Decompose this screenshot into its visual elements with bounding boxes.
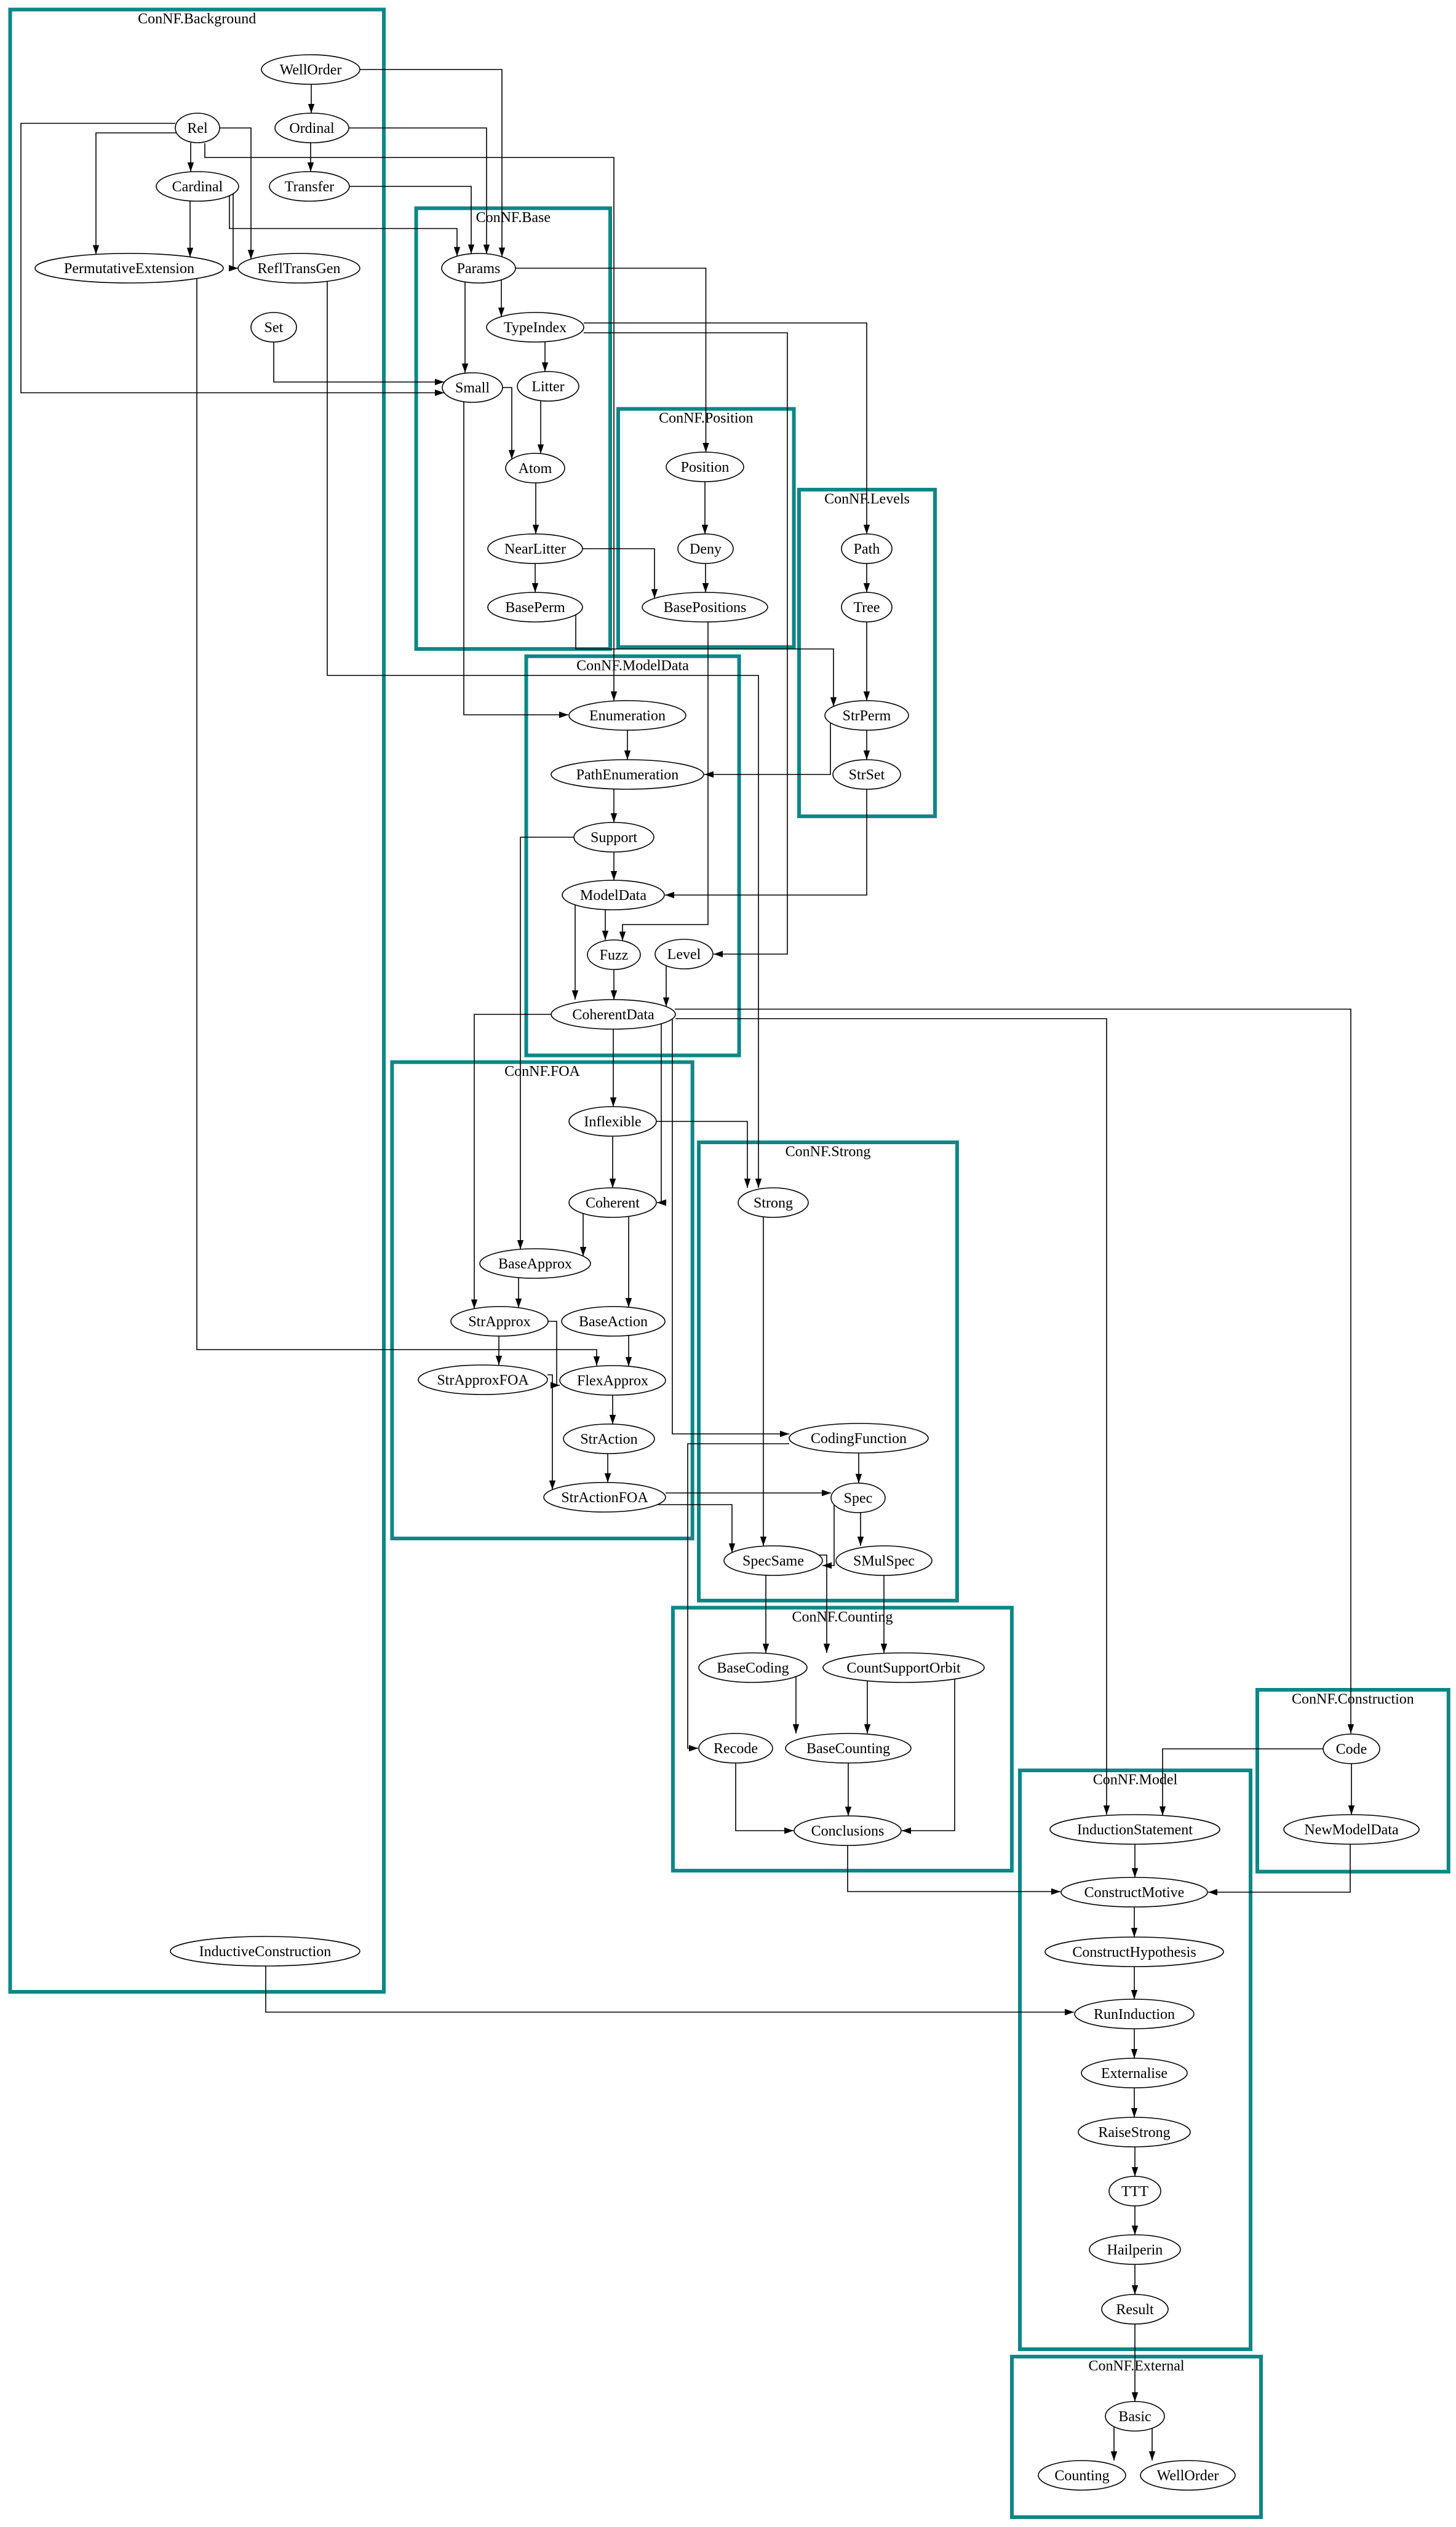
svg-text:Level: Level [667, 947, 701, 963]
svg-text:Spec: Spec [844, 1490, 873, 1506]
svg-text:TTT: TTT [1121, 2184, 1148, 2200]
edge StrApproxFOA->StrActionFOA [547, 1375, 552, 1490]
svg-text:WellOrder: WellOrder [1157, 2468, 1219, 2484]
edge Level->CoherentData [666, 966, 667, 1007]
svg-text:ReflTransGen: ReflTransGen [257, 261, 340, 277]
node Deny [678, 534, 733, 563]
svg-text:CoherentData: CoherentData [572, 1007, 654, 1023]
svg-text:Transfer: Transfer [285, 179, 334, 195]
svg-text:WellOrder: WellOrder [280, 62, 342, 78]
edge Basic->Counting [1113, 2427, 1115, 2461]
edge Hailperin->Result [1134, 2264, 1136, 2294]
cluster ConNF.External [1012, 2357, 1261, 2517]
svg-text:Basic: Basic [1118, 2409, 1151, 2425]
edge Code->InductionStatement [1163, 1749, 1323, 1815]
edge BaseAction->FlexApprox [628, 1335, 629, 1366]
edge CoherentData->Code [675, 1009, 1351, 1734]
svg-text:FlexApprox: FlexApprox [577, 1373, 648, 1389]
node InductionStatement [1050, 1815, 1220, 1844]
node StrActionFOA [544, 1482, 666, 1512]
edge Support->ModelData [613, 852, 615, 880]
edge Params->Position [515, 268, 706, 452]
svg-text:StrPerm: StrPerm [843, 708, 891, 724]
svg-text:BasePositions: BasePositions [664, 600, 747, 616]
edge Conclusions->ConstructMotive [848, 1845, 1060, 1892]
svg-text:PermutativeExtension: PermutativeExtension [64, 261, 194, 277]
node BasePerm [488, 592, 583, 622]
svg-text:ConNF.Model: ConNF.Model [1093, 1772, 1178, 1788]
edge Strong->SpecSame [763, 1217, 764, 1546]
node Enumeration [569, 701, 686, 730]
cluster ConNF.Strong [699, 1142, 957, 1601]
svg-text:Result: Result [1116, 2302, 1154, 2318]
svg-text:Rel: Rel [187, 121, 208, 137]
edge Small->Atom [503, 388, 512, 459]
node TypeIndex [487, 312, 584, 342]
edge ModelData->CoherentData [575, 905, 576, 1000]
edge TypeIndex->Litter [544, 342, 546, 372]
cluster ConNF.Model [1020, 1770, 1251, 2349]
svg-text:Tree: Tree [853, 600, 880, 616]
svg-text:StrSet: StrSet [849, 767, 885, 783]
edge Inflexible->Strong [656, 1121, 747, 1188]
cluster ConNF.Background [10, 10, 384, 1992]
svg-text:ConNF.FOA: ConNF.FOA [504, 1064, 580, 1080]
edge InductionStatement->ConstructMotive [1134, 1844, 1136, 1877]
svg-text:ConstructMotive: ConstructMotive [1084, 1885, 1185, 1901]
node Spec [831, 1483, 885, 1513]
node BasePositions [642, 592, 768, 622]
edge StrActionFOA->Spec [666, 1492, 831, 1494]
svg-text:Conclusions: Conclusions [811, 1823, 885, 1839]
edge Fuzz->CoherentData [613, 969, 615, 1000]
edge Cardinal->ReflTransGen [233, 194, 238, 268]
node Externalise [1081, 2058, 1187, 2088]
node BaseCounting [786, 1733, 911, 1763]
edge CoherentData->CodingFunction [672, 1019, 789, 1435]
edge Params->TypeIndex [501, 280, 502, 317]
svg-text:Path: Path [854, 541, 880, 557]
edge FlexApprox->StrAction [612, 1395, 613, 1424]
svg-text:RunInduction: RunInduction [1094, 2007, 1175, 2023]
node Transfer [269, 172, 349, 201]
svg-text:BaseCoding: BaseCoding [717, 1660, 789, 1676]
edge Atom->NearLitter [535, 483, 536, 534]
svg-text:ConNF.ModelData: ConNF.ModelData [576, 658, 689, 674]
edge StrSet->ModelData [665, 789, 867, 895]
svg-text:Enumeration: Enumeration [589, 708, 666, 724]
node StrAction [563, 1424, 654, 1454]
edge TTT->Hailperin [1134, 2206, 1136, 2235]
svg-text:NewModelData: NewModelData [1304, 1822, 1399, 1838]
svg-text:Hailperin: Hailperin [1107, 2242, 1163, 2258]
node WellOrder [261, 55, 360, 84]
node SMulSpec [836, 1546, 932, 1575]
svg-text:Atom: Atom [519, 461, 552, 477]
node Ordinal [275, 113, 349, 143]
edge TypeIndex->Path [584, 323, 867, 534]
edge PermutativeExtension->FlexApprox [197, 279, 597, 1366]
node BaseAction [562, 1307, 665, 1336]
edge NewModelData->ConstructMotive [1208, 1844, 1350, 1892]
edge Coherent->BaseAction [628, 1216, 629, 1307]
edge Rel->Enumeration [205, 143, 614, 701]
node PermutativeExtension [35, 253, 223, 283]
edge TypeIndex->Level [584, 333, 787, 954]
edge NearLitter->BasePerm [535, 563, 536, 592]
edge Tree->StrPerm [866, 622, 867, 701]
node CountSupportOrbit [823, 1653, 984, 1682]
edge StrPerm->PathEnumeration [704, 723, 830, 774]
svg-text:SMulSpec: SMulSpec [853, 1553, 915, 1569]
svg-text:CodingFunction: CodingFunction [811, 1431, 907, 1447]
edge BaseCoding->BaseCounting [795, 1677, 797, 1734]
cluster ConNF.Position [618, 409, 794, 647]
edge Rel->Cardinal [190, 143, 191, 172]
svg-text:ConNF.Strong: ConNF.Strong [786, 1144, 871, 1160]
edge Transfer->Params [349, 186, 471, 254]
edge SMulSpec->CountSupportOrbit [883, 1575, 885, 1653]
edge Recode->Conclusions [736, 1763, 794, 1831]
svg-text:Inflexible: Inflexible [584, 1114, 641, 1130]
node Set [251, 312, 296, 342]
node Params [442, 253, 515, 283]
node FlexApprox [560, 1366, 666, 1395]
svg-text:ConNF.Base: ConNF.Base [476, 210, 551, 226]
node StrApproxFOA [418, 1365, 547, 1395]
svg-text:InductionStatement: InductionStatement [1077, 1822, 1193, 1838]
svg-text:ConstructHypothesis: ConstructHypothesis [1072, 1944, 1196, 1960]
edge Spec->SMulSpec [860, 1513, 861, 1546]
node Position [666, 452, 744, 482]
node NearLitter [488, 534, 583, 563]
node RunInduction [1075, 1999, 1194, 2029]
svg-text:StrApprox: StrApprox [468, 1314, 530, 1330]
edge Spec->SpecSame [822, 1505, 834, 1566]
svg-text:Position: Position [681, 460, 730, 476]
node Recode [699, 1733, 773, 1763]
svg-text:ModelData: ModelData [580, 888, 646, 904]
edge CoherentData->StrApprox [474, 1014, 551, 1309]
node Atom [506, 453, 565, 483]
edge Cardinal->Params [229, 196, 457, 256]
svg-text:CountSupportOrbit: CountSupportOrbit [846, 1660, 961, 1676]
edge WellOrder->Params [360, 70, 502, 257]
svg-text:StrAction: StrAction [580, 1431, 637, 1447]
node ReflTransGen [238, 253, 360, 283]
edge NearLitter->BasePositions [583, 549, 654, 599]
svg-text:BaseCounting: BaseCounting [806, 1741, 890, 1757]
edge Set->Small [274, 342, 444, 382]
edge CoherentData->InductionStatement [675, 1019, 1107, 1815]
node CodingFunction [789, 1423, 928, 1453]
node Fuzz [587, 940, 640, 969]
edge Litter->Atom [540, 400, 541, 453]
svg-text:ConNF.External: ConNF.External [1088, 2358, 1184, 2374]
edge Code->NewModelData [1351, 1764, 1352, 1815]
svg-text:RaiseStrong: RaiseStrong [1098, 2125, 1170, 2141]
edge StrActionFOA->SpecSame [658, 1505, 732, 1553]
node Inflexible [569, 1107, 656, 1136]
cluster ConNF.Counting [673, 1608, 1012, 1871]
svg-text:ConNF.Construction: ConNF.Construction [1292, 1692, 1414, 1708]
edge Ordinal->Transfer [310, 143, 311, 172]
svg-text:Params: Params [457, 261, 501, 277]
node Counting [1038, 2461, 1126, 2490]
node TTT [1109, 2176, 1161, 2206]
edge RunInduction->Externalise [1134, 2029, 1135, 2058]
edge CoherentData->Coherent [657, 1024, 661, 1203]
edge CoherentData->Inflexible [613, 1029, 614, 1107]
node InductiveConstruction [170, 1936, 360, 1966]
edge StrPerm->StrSet [866, 730, 867, 760]
svg-text:Fuzz: Fuzz [600, 947, 629, 963]
edge StrAction->StrActionFOA [607, 1454, 608, 1482]
svg-text:Recode: Recode [714, 1741, 758, 1757]
node Hailperin [1089, 2235, 1180, 2264]
edge BasePerm->StrPerm [576, 615, 833, 706]
node Level [655, 939, 713, 969]
svg-text:NearLitter: NearLitter [504, 541, 566, 557]
node ConstructHypothesis [1045, 1937, 1223, 1967]
svg-text:Ordinal: Ordinal [289, 121, 335, 137]
node Strong [738, 1188, 808, 1217]
node StrApprox [451, 1307, 548, 1336]
svg-text:Cardinal: Cardinal [172, 179, 223, 195]
edge Path->Tree [866, 563, 867, 592]
edge Coherent->BaseApprox [583, 1214, 584, 1256]
node Rel [175, 113, 220, 143]
node CoherentData [551, 1000, 675, 1029]
node BaseApprox [480, 1249, 591, 1278]
node BaseCoding [699, 1653, 807, 1682]
svg-text:StrActionFOA: StrActionFOA [561, 1490, 648, 1506]
edge BasePositions->Fuzz [623, 622, 708, 941]
node Support [574, 822, 654, 852]
edge Rel->Small [21, 124, 444, 393]
cluster ConNF.Construction [1257, 1690, 1449, 1872]
node Coherent [569, 1188, 656, 1217]
edge Cardinal->PermutativeExtension [189, 201, 191, 257]
svg-text:SpecSame: SpecSame [742, 1553, 804, 1569]
node Basic [1105, 2402, 1164, 2431]
edge BaseCounting->Conclusions [848, 1763, 849, 1816]
node RaiseStrong [1078, 2117, 1190, 2147]
node Cardinal [156, 172, 239, 201]
node NewModelData [1284, 1815, 1419, 1844]
svg-text:Small: Small [455, 380, 490, 396]
svg-text:PathEnumeration: PathEnumeration [576, 767, 679, 783]
svg-text:BasePerm: BasePerm [505, 600, 565, 616]
edge Params->Small [464, 282, 466, 373]
edge RaiseStrong->TTT [1134, 2147, 1136, 2176]
edge ConstructMotive->ConstructHypothesis [1134, 1907, 1135, 1937]
cluster ConNF.FOA [392, 1062, 692, 1538]
svg-text:ConNF.Background: ConNF.Background [138, 11, 256, 27]
cluster ConNF.Levels [799, 490, 935, 816]
edge CodingFunction->Spec [858, 1453, 859, 1483]
svg-text:Deny: Deny [690, 541, 722, 557]
node ConstructMotive [1061, 1877, 1207, 1907]
edge Basic->WellOrder2 [1152, 2429, 1153, 2461]
edge InductiveConstruction->RunInduction [266, 1966, 1074, 2012]
edge BaseApprox->StrApprox [518, 1278, 519, 1308]
node Result [1102, 2294, 1168, 2324]
edge SpecSame->BaseCoding [765, 1575, 766, 1653]
edge CountSupportOrbit->Conclusions [902, 1679, 955, 1831]
svg-text:BaseAction: BaseAction [579, 1314, 648, 1330]
edge Externalise->RaiseStrong [1134, 2088, 1135, 2117]
svg-text:Externalise: Externalise [1101, 2066, 1168, 2082]
node Code [1323, 1734, 1380, 1764]
edge SpecSame->CountSupportOrbit [817, 1555, 827, 1653]
node Conclusions [794, 1816, 901, 1845]
svg-text:Support: Support [591, 830, 637, 846]
svg-text:InductiveConstruction: InductiveConstruction [199, 1944, 332, 1960]
node PathEnumeration [551, 760, 704, 789]
edge Enumeration->PathEnumeration [627, 730, 628, 760]
edge Inflexible->Coherent [612, 1136, 613, 1188]
node WellOrder [1140, 2461, 1235, 2490]
edge Rel->ReflTransGen [220, 128, 251, 259]
edge Deny->BasePositions [705, 563, 706, 592]
node StrPerm [825, 701, 909, 730]
svg-text:Counting: Counting [1054, 2468, 1109, 2484]
node Litter [517, 372, 579, 401]
node ModelData [562, 880, 664, 910]
edge ConstructHypothesis->RunInduction [1134, 1967, 1135, 1999]
edge Ordinal->Params [349, 128, 487, 254]
cluster ConNF.ModelData [527, 656, 739, 1056]
svg-text:Strong: Strong [754, 1195, 793, 1211]
node Path [841, 534, 892, 563]
svg-text:StrApproxFOA: StrApproxFOA [437, 1372, 529, 1388]
node Tree [841, 592, 892, 622]
svg-text:TypeIndex: TypeIndex [504, 320, 567, 336]
svg-text:Set: Set [265, 320, 284, 336]
edge Rel->PermutativeExtension [96, 133, 177, 255]
edge Result->Basic [1134, 2324, 1136, 2402]
edge WellOrder->Ordinal [311, 84, 312, 113]
svg-text:Litter: Litter [531, 379, 564, 395]
node Small [442, 373, 503, 402]
edge Position->Deny [704, 482, 706, 534]
edge CountSupportOrbit->BaseCounting [867, 1681, 868, 1733]
edge Small->Enumeration [464, 402, 568, 715]
edge StrApprox->StrApproxFOA [498, 1336, 499, 1365]
edge Support->BaseApprox [520, 837, 574, 1249]
edge ReflTransGen->Strong [327, 281, 758, 1188]
cluster ConNF.Base [416, 209, 610, 650]
svg-text:Code: Code [1336, 1741, 1367, 1757]
edge ModelData->Fuzz [605, 910, 606, 940]
edge CodingFunction->Recode [688, 1444, 789, 1748]
edge PathEnumeration->Support [613, 789, 615, 822]
node SpecSame [724, 1546, 822, 1575]
svg-text:ConNF.Counting: ConNF.Counting [792, 1609, 893, 1625]
svg-text:BaseApprox: BaseApprox [498, 1256, 572, 1272]
edge StrApprox->FlexApprox [548, 1321, 560, 1385]
node StrSet [833, 760, 901, 789]
svg-text:Coherent: Coherent [586, 1195, 640, 1211]
